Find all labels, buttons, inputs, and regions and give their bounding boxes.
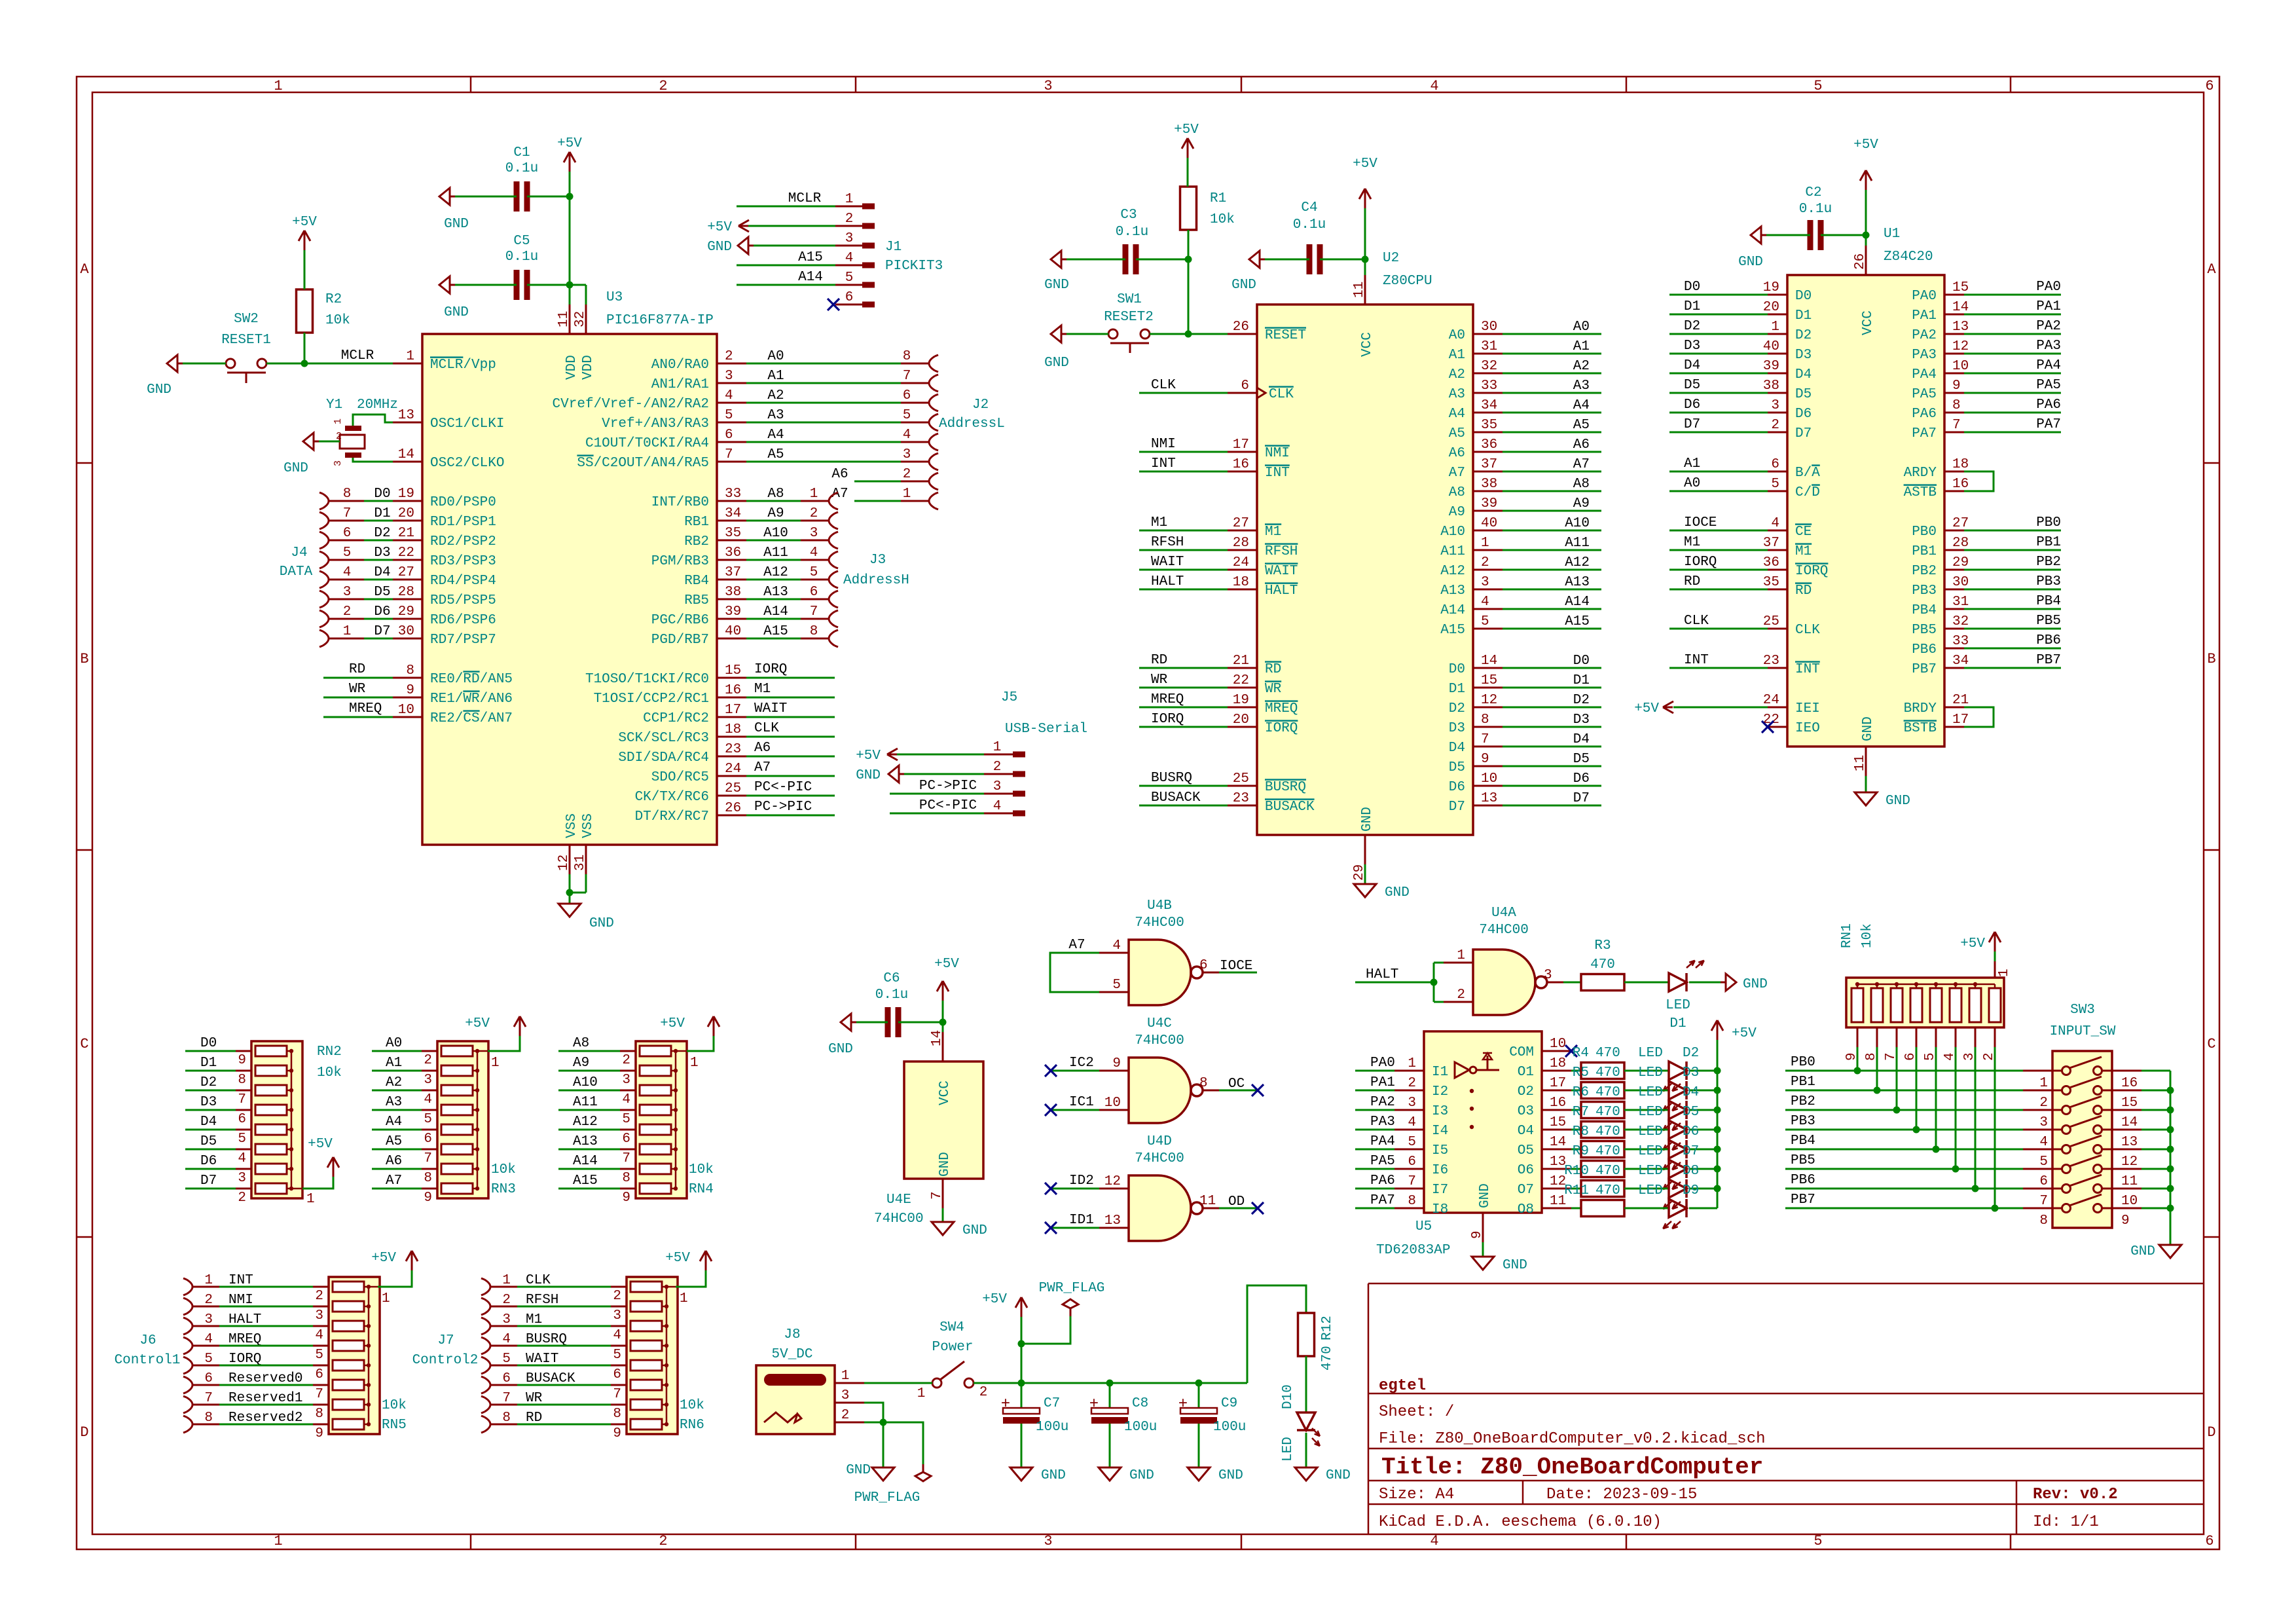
wire OD out bbox=[1219, 1208, 1257, 1209]
svg-text:7: 7 bbox=[424, 1151, 432, 1166]
svg-text:3: 3 bbox=[2039, 1115, 2048, 1130]
svg-text:13: 13 bbox=[398, 408, 414, 423]
svg-text:WR: WR bbox=[349, 682, 366, 697]
capacitor C7 100u bbox=[1003, 1408, 1040, 1414]
J7 pin 8 RD bbox=[484, 1417, 490, 1431]
wire SW3 pin9 to GND rail bbox=[2141, 1208, 2170, 1209]
SW3 element 1 bbox=[2062, 1067, 2071, 1075]
svg-text:VCC: VCC bbox=[938, 1080, 953, 1105]
J3 pin 2 net A9 bbox=[746, 520, 801, 522]
wire R9 to LED bbox=[1624, 1168, 1669, 1170]
svg-text:A5: A5 bbox=[386, 1134, 402, 1149]
U1 pin 12 PA3 bbox=[1944, 353, 1964, 355]
RN1 pin 8 bbox=[1876, 1027, 1878, 1047]
wire J6 IORQ bbox=[219, 1365, 314, 1367]
svg-text:A6: A6 bbox=[1449, 446, 1465, 461]
wire LED +5V rail bbox=[1717, 1040, 1719, 1208]
svg-text:PICKIT3: PICKIT3 bbox=[885, 259, 943, 274]
resistor R6 470 bbox=[1581, 1102, 1624, 1118]
svg-text:KiCad E.D.A. eeschema (6.0.10: KiCad E.D.A. eeschema (6.0.10) bbox=[1379, 1513, 1662, 1531]
wire U5 PA0 bbox=[1355, 1070, 1394, 1072]
svg-text:IOCE: IOCE bbox=[1220, 959, 1252, 974]
junction HALT bbox=[1430, 979, 1438, 986]
U2 pin 23 BUSACK bbox=[1228, 805, 1257, 807]
U3 pin 27 RD4/PSP4 bbox=[393, 579, 422, 581]
svg-text:RFSH: RFSH bbox=[1151, 535, 1184, 550]
RN5 element 2 bbox=[333, 1301, 364, 1312]
RN1 element 7 bbox=[1969, 988, 1981, 1022]
resistor network RN5 10k body bbox=[329, 1277, 380, 1434]
wire J4 D3 bbox=[364, 559, 393, 561]
svg-text:34: 34 bbox=[1481, 398, 1497, 413]
svg-text:4: 4 bbox=[993, 799, 1002, 814]
capacitor C8 100u bbox=[1091, 1408, 1128, 1414]
U2 pin 40 A10 bbox=[1473, 530, 1503, 532]
svg-text:I1: I1 bbox=[1432, 1065, 1448, 1080]
J4 pin 2 net D6 bbox=[323, 612, 329, 626]
svg-text:OD: OD bbox=[1228, 1194, 1245, 1209]
svg-text:9: 9 bbox=[1481, 752, 1489, 767]
resistor R5 470 bbox=[1581, 1082, 1624, 1099]
wire +5V to VCC bbox=[1364, 208, 1366, 275]
wire A15 RN4 bbox=[558, 1188, 620, 1190]
junction LED rail D8 bbox=[1714, 1166, 1721, 1173]
svg-text:I5: I5 bbox=[1432, 1143, 1448, 1158]
svg-text:A4: A4 bbox=[386, 1115, 402, 1130]
svg-text:M1: M1 bbox=[1151, 515, 1167, 530]
wire R10 to LED bbox=[1624, 1188, 1669, 1190]
svg-text:0.1u: 0.1u bbox=[1116, 225, 1148, 240]
svg-text:RN3: RN3 bbox=[491, 1182, 516, 1197]
svg-text:1: 1 bbox=[406, 349, 414, 364]
svg-text:7: 7 bbox=[238, 1092, 246, 1107]
wire GND to SW1 bbox=[1066, 333, 1108, 335]
svg-text:A12: A12 bbox=[573, 1115, 598, 1130]
U4E pin 14 VCC bbox=[942, 1032, 944, 1061]
svg-text:A4: A4 bbox=[767, 428, 784, 443]
svg-text:GND: GND bbox=[1044, 356, 1069, 371]
U2 pin 36 A6 bbox=[1473, 451, 1503, 453]
U1 pin 1 D2 bbox=[1768, 333, 1787, 335]
svg-text:16: 16 bbox=[725, 683, 741, 698]
wire J6 Reserved0 bbox=[219, 1384, 314, 1386]
svg-text:D6: D6 bbox=[1449, 780, 1465, 795]
RN1 internal bus bbox=[1857, 984, 1995, 986]
svg-text:17: 17 bbox=[1952, 712, 1969, 728]
svg-text:1: 1 bbox=[993, 740, 1002, 755]
svg-text:3: 3 bbox=[1481, 575, 1489, 590]
svg-text:AN1/RA1: AN1/RA1 bbox=[651, 377, 709, 392]
U4C pin 9 bbox=[1099, 1070, 1129, 1072]
power +5V arrow IEI bbox=[1663, 701, 1673, 707]
svg-text:24: 24 bbox=[725, 762, 741, 777]
svg-text:6: 6 bbox=[204, 1371, 213, 1386]
svg-text:A13: A13 bbox=[1440, 583, 1465, 599]
svg-text:470: 470 bbox=[1595, 1085, 1620, 1100]
svg-text:RD6/PSP6: RD6/PSP6 bbox=[430, 613, 496, 628]
svg-text:GND: GND bbox=[283, 461, 308, 476]
svg-text:11: 11 bbox=[1199, 1194, 1216, 1209]
junction PWR_FLAG top bbox=[1018, 1340, 1025, 1348]
svg-text:13: 13 bbox=[1104, 1213, 1121, 1228]
svg-text:IORQ: IORQ bbox=[1265, 721, 1298, 736]
svg-text:5: 5 bbox=[613, 1348, 621, 1363]
wire J6 Reserved2 bbox=[219, 1424, 314, 1426]
svg-text:OSC1/CLKI: OSC1/CLKI bbox=[430, 416, 504, 432]
svg-text:T1OSI/CCP2/RC1: T1OSI/CCP2/RC1 bbox=[594, 692, 709, 707]
svg-text:8: 8 bbox=[343, 487, 352, 502]
svg-text:A9: A9 bbox=[767, 506, 784, 521]
wire D5 RN2 bbox=[185, 1149, 236, 1151]
wire U2 A8 bbox=[1503, 490, 1601, 492]
RN5 pin 4 bbox=[313, 1325, 329, 1327]
junction PB1 RN1 bbox=[1874, 1087, 1881, 1094]
U3 pin 31 VSS bbox=[585, 845, 587, 874]
wire D4 RN2 bbox=[185, 1129, 236, 1131]
wire D0 RN2 bbox=[185, 1050, 236, 1052]
RN4 pin 3 bbox=[620, 1070, 636, 1072]
svg-text:7: 7 bbox=[1408, 1174, 1416, 1189]
svg-text:D1: D1 bbox=[1669, 1016, 1686, 1031]
U3 pin 21 RD2/PSP2 bbox=[393, 540, 422, 542]
RN4 pin 4 bbox=[620, 1090, 636, 1092]
svg-text:23: 23 bbox=[725, 742, 741, 757]
svg-text:D1: D1 bbox=[374, 506, 390, 521]
wire U2 A2 bbox=[1503, 373, 1601, 375]
svg-text:RN2: RN2 bbox=[317, 1044, 342, 1060]
J8 center pin symbol bbox=[764, 1412, 797, 1422]
svg-text:AddressL: AddressL bbox=[939, 416, 1005, 432]
U3 pin 19 RD0/PSP0 bbox=[393, 500, 422, 502]
resistor R9 470 bbox=[1581, 1161, 1624, 1177]
svg-text:A12: A12 bbox=[763, 565, 788, 580]
svg-text:D10: D10 bbox=[1281, 1384, 1296, 1409]
svg-text:7: 7 bbox=[2039, 1194, 2048, 1209]
wire U2 INT bbox=[1139, 471, 1228, 473]
wire A9 RN4 bbox=[558, 1070, 620, 1072]
RN1 pin 5 bbox=[1935, 1027, 1937, 1047]
wire RN1 to PB2 bbox=[1896, 1047, 1898, 1110]
wire SW4 to +5V rail bbox=[974, 1382, 1247, 1384]
svg-text:D5: D5 bbox=[374, 585, 390, 600]
svg-text:12: 12 bbox=[1104, 1174, 1121, 1189]
RN4 element 7 bbox=[640, 1164, 671, 1174]
power +5V RN3 bbox=[519, 1016, 521, 1036]
wire C2 right bbox=[1821, 234, 1866, 236]
RN4 pin 7 bbox=[620, 1149, 636, 1151]
svg-text:34: 34 bbox=[725, 506, 741, 521]
junction PB7 RN1 bbox=[1992, 1205, 1999, 1212]
wire D6 to +5V rail bbox=[1689, 1149, 1717, 1151]
wire J5 pin2 bbox=[904, 773, 984, 775]
svg-text:+: + bbox=[1001, 1395, 1010, 1413]
svg-text:AddressH: AddressH bbox=[843, 573, 909, 588]
LED D7 bbox=[1669, 1160, 1686, 1178]
U3 pin 3 AN1/RA1 bbox=[717, 382, 746, 384]
svg-text:0.1u: 0.1u bbox=[505, 161, 538, 176]
svg-text:INPUT_SW: INPUT_SW bbox=[2050, 1024, 2116, 1039]
RN4 element 5 bbox=[640, 1124, 671, 1135]
wire A3 RN3 bbox=[372, 1109, 422, 1111]
svg-text:2: 2 bbox=[903, 467, 911, 482]
wire R4 to LED bbox=[1624, 1070, 1669, 1072]
svg-text:5: 5 bbox=[1813, 1533, 1822, 1549]
svg-text:10: 10 bbox=[398, 703, 414, 718]
svg-text:A7: A7 bbox=[1068, 938, 1085, 953]
RN1 element 5 bbox=[1930, 988, 1942, 1022]
svg-text:GND: GND bbox=[1738, 255, 1763, 270]
power flag PWR_FLAG top bbox=[1070, 1308, 1072, 1316]
wire PB5 bus bbox=[1785, 1168, 2023, 1170]
svg-text:A3: A3 bbox=[386, 1095, 402, 1110]
wire RN2 pin1 to +5V bbox=[302, 1177, 333, 1189]
svg-text:O5: O5 bbox=[1518, 1143, 1534, 1158]
wire C3 right bbox=[1136, 259, 1188, 261]
svg-text:PB1: PB1 bbox=[1791, 1075, 1815, 1090]
svg-text:4: 4 bbox=[1408, 1115, 1416, 1130]
U3 pin 24 SDO/RC5 bbox=[717, 775, 746, 777]
wire R3 to LED D1 bbox=[1624, 982, 1669, 984]
svg-text:A12: A12 bbox=[1440, 564, 1465, 579]
svg-text:R11: R11 bbox=[1564, 1183, 1589, 1198]
svg-text:A8: A8 bbox=[767, 487, 784, 502]
svg-text:COM: COM bbox=[1509, 1045, 1534, 1060]
wire U2 BUSRQ bbox=[1139, 785, 1228, 787]
U5 pin 14 O5 bbox=[1542, 1149, 1571, 1151]
svg-text:3: 3 bbox=[1408, 1096, 1416, 1111]
RN2 element 6 bbox=[255, 1144, 287, 1154]
SW3 element 2 bbox=[2062, 1086, 2071, 1095]
RN6 element 2 bbox=[630, 1301, 662, 1312]
svg-text:8: 8 bbox=[2039, 1213, 2048, 1228]
svg-text:A0: A0 bbox=[1449, 328, 1465, 343]
wire SW3 pin14 to GND rail bbox=[2141, 1109, 2170, 1111]
svg-text:C6: C6 bbox=[883, 971, 900, 986]
wire R12 to D10 bbox=[1305, 1356, 1307, 1412]
svg-text:33: 33 bbox=[1952, 634, 1969, 649]
svg-text:11: 11 bbox=[556, 311, 572, 327]
wire PB2 bus bbox=[1785, 1109, 2023, 1111]
wire SW2 to U3 MCLR bbox=[266, 363, 393, 365]
wire J1 pin2 bbox=[748, 225, 835, 227]
svg-text:29: 29 bbox=[398, 604, 414, 619]
svg-text:3: 3 bbox=[725, 369, 733, 384]
svg-text:GND: GND bbox=[1326, 1468, 1351, 1483]
svg-text:I2: I2 bbox=[1432, 1084, 1448, 1099]
RN2 pin 7 bbox=[236, 1090, 251, 1092]
J6 pin 1 INT bbox=[187, 1280, 192, 1294]
svg-text:C5: C5 bbox=[513, 234, 530, 249]
wire U1 PA7 bbox=[1964, 432, 2061, 434]
svg-text:15: 15 bbox=[1952, 280, 1969, 295]
svg-text:RESET1: RESET1 bbox=[221, 333, 271, 348]
wire D9 to +5V rail bbox=[1689, 1208, 1717, 1209]
wire C3 left bbox=[1066, 259, 1125, 261]
svg-text:39: 39 bbox=[1763, 359, 1779, 374]
U1 pin 36 IORQ bbox=[1768, 569, 1787, 571]
svg-text:A10: A10 bbox=[763, 526, 788, 541]
svg-text:2: 2 bbox=[343, 604, 352, 619]
svg-text:RN5: RN5 bbox=[382, 1418, 407, 1433]
svg-text:U4C: U4C bbox=[1147, 1016, 1172, 1031]
wire J5 PC->PIC bbox=[890, 793, 984, 795]
wire J7 RFSH bbox=[517, 1306, 612, 1308]
wire PB3 bus bbox=[1785, 1129, 2023, 1131]
svg-text:A6: A6 bbox=[754, 741, 771, 756]
svg-text:3: 3 bbox=[1044, 1533, 1052, 1549]
svg-text:20: 20 bbox=[1763, 300, 1779, 315]
U4D output bubble bbox=[1191, 1202, 1203, 1214]
svg-text:+5V: +5V bbox=[292, 215, 317, 230]
svg-text:A8: A8 bbox=[1573, 477, 1590, 492]
svg-text:GND: GND bbox=[1129, 1468, 1154, 1483]
svg-text:+5V: +5V bbox=[660, 1016, 685, 1031]
svg-text:17: 17 bbox=[1233, 437, 1249, 452]
svg-text:9: 9 bbox=[315, 1426, 323, 1441]
svg-text:PB4: PB4 bbox=[2036, 594, 2061, 609]
svg-text:27: 27 bbox=[1952, 516, 1969, 531]
wire U1 PB6 bbox=[1964, 648, 2061, 650]
svg-text:3: 3 bbox=[841, 1388, 850, 1403]
U2 pin 19 MREQ bbox=[1228, 707, 1257, 709]
RN3 pin 9 bbox=[422, 1188, 437, 1190]
wire U1 D5 bbox=[1669, 392, 1768, 394]
svg-text:PA2: PA2 bbox=[2036, 319, 2061, 334]
junction RESET bbox=[1185, 331, 1192, 338]
RN2 pin 4 bbox=[236, 1149, 251, 1151]
wire U3 A6 bbox=[746, 756, 835, 758]
svg-text:8: 8 bbox=[613, 1407, 621, 1422]
svg-text:+5V: +5V bbox=[665, 1251, 690, 1266]
svg-text:10k: 10k bbox=[1860, 923, 1875, 948]
svg-text:D3: D3 bbox=[200, 1095, 217, 1110]
svg-text:10k: 10k bbox=[680, 1398, 704, 1413]
RN2 pin 8 bbox=[236, 1070, 251, 1072]
J2 pin 7 net A1 bbox=[746, 382, 901, 384]
svg-text:Power: Power bbox=[932, 1340, 973, 1355]
wire SW3 pin12 to GND rail bbox=[2141, 1149, 2170, 1151]
svg-text:26: 26 bbox=[725, 801, 741, 816]
svg-text:2: 2 bbox=[336, 431, 342, 442]
U4B pin 6 bbox=[1203, 972, 1219, 974]
no-connect OD bbox=[1252, 1202, 1264, 1214]
svg-text:0.1u: 0.1u bbox=[1293, 217, 1326, 232]
svg-text:3: 3 bbox=[810, 526, 818, 541]
svg-text:A0: A0 bbox=[1573, 320, 1590, 335]
wire R1 to RESET net bbox=[1188, 230, 1190, 334]
wire C1 right bbox=[527, 196, 570, 198]
RN3 element 3 bbox=[441, 1085, 473, 1096]
wire IC1 bbox=[1051, 1109, 1099, 1111]
svg-text:O4: O4 bbox=[1518, 1124, 1534, 1139]
wire U2 A15 bbox=[1503, 628, 1601, 630]
svg-text:GND: GND bbox=[1231, 278, 1256, 293]
J8 pin 1 bbox=[835, 1382, 864, 1384]
U2 pin 31 A1 bbox=[1473, 353, 1503, 355]
svg-text:9: 9 bbox=[1470, 1230, 1485, 1239]
NAND gate U4C 74HC00 body bbox=[1129, 1058, 1191, 1123]
svg-text:11: 11 bbox=[1853, 755, 1868, 771]
svg-text:RB2: RB2 bbox=[684, 534, 709, 549]
svg-text:35: 35 bbox=[1481, 418, 1497, 433]
power +5V arrow J1 pin2 bbox=[738, 220, 749, 226]
svg-text:LED: LED bbox=[1638, 1183, 1663, 1198]
SW3 pin 3 bbox=[2023, 1109, 2062, 1111]
svg-text:38: 38 bbox=[1763, 378, 1779, 394]
wire PB0 bus bbox=[1785, 1070, 2023, 1072]
ground Y1 GND arrow bbox=[303, 433, 314, 450]
J3 pin 6 net A13 bbox=[746, 599, 801, 600]
svg-text:A: A bbox=[2207, 261, 2216, 278]
wire U5 O5 to resistor bbox=[1571, 1149, 1581, 1151]
wire U1 IORQ bbox=[1669, 569, 1768, 571]
svg-text:RB4: RB4 bbox=[684, 574, 709, 589]
svg-text:O6: O6 bbox=[1518, 1163, 1534, 1178]
switch SW3 INPUT_SW body bbox=[2052, 1051, 2112, 1228]
RN5 internal bus bbox=[368, 1287, 370, 1424]
title block bbox=[1368, 1283, 1370, 1534]
ground U3 GND symbol bbox=[558, 904, 581, 917]
svg-text:A11: A11 bbox=[1440, 544, 1465, 559]
svg-text:VCC: VCC bbox=[1360, 332, 1375, 357]
wire U2 A9 bbox=[1503, 510, 1601, 512]
wire J6 Reserved1 bbox=[219, 1404, 314, 1406]
U2 pin 12 D2 bbox=[1473, 707, 1503, 709]
wire U4A out to R3 bbox=[1563, 982, 1581, 984]
svg-text:O8: O8 bbox=[1518, 1202, 1534, 1217]
svg-text:6: 6 bbox=[238, 1112, 246, 1127]
U1 pin 34 PB7 bbox=[1944, 667, 1964, 669]
wire D7 RN2 bbox=[185, 1188, 236, 1190]
IC U4E 74HC00 power body bbox=[904, 1061, 983, 1179]
svg-text:100u: 100u bbox=[1036, 1420, 1068, 1435]
wire to PWR_FLAG top bbox=[1021, 1316, 1070, 1344]
wire U1 D7 bbox=[1669, 432, 1768, 434]
svg-text:SDO/RC5: SDO/RC5 bbox=[651, 770, 709, 785]
junction LED rail D5 bbox=[1714, 1107, 1721, 1114]
RN6 pin 2 bbox=[611, 1286, 627, 1288]
wire IOCE out bbox=[1219, 972, 1257, 974]
ground GND arrow J5 pin2 bbox=[888, 766, 899, 783]
wire U2 D2 bbox=[1503, 707, 1601, 709]
wire U2 RFSH bbox=[1139, 549, 1228, 551]
RN5 element 5 bbox=[333, 1360, 364, 1371]
wire U3 VSS to GND bbox=[569, 874, 571, 904]
LED D5 bbox=[1669, 1120, 1686, 1139]
wire RN1 to PB6 bbox=[1975, 1047, 1977, 1189]
svg-text:10k: 10k bbox=[317, 1065, 342, 1080]
svg-text:4: 4 bbox=[622, 1092, 630, 1107]
svg-text:VCC: VCC bbox=[1861, 310, 1876, 335]
svg-text:PB2: PB2 bbox=[1791, 1094, 1815, 1109]
RN6 element 3 bbox=[630, 1321, 662, 1331]
wire R11 to LED bbox=[1624, 1208, 1669, 1209]
svg-text:30: 30 bbox=[1481, 320, 1497, 335]
svg-text:PB3: PB3 bbox=[1912, 583, 1937, 599]
wire A2 RN3 bbox=[372, 1090, 422, 1092]
svg-text:GND: GND bbox=[707, 240, 732, 255]
svg-text:PA6: PA6 bbox=[1912, 407, 1937, 422]
svg-text:J1: J1 bbox=[885, 240, 902, 255]
wire U2 MREQ bbox=[1139, 707, 1228, 709]
svg-text:PB7: PB7 bbox=[1912, 662, 1937, 677]
svg-text:1: 1 bbox=[680, 1291, 688, 1306]
svg-text:1: 1 bbox=[845, 192, 854, 207]
svg-text:R2: R2 bbox=[325, 292, 342, 307]
no-connect U1 IEO bbox=[1762, 721, 1774, 733]
svg-text:PA4: PA4 bbox=[1370, 1134, 1395, 1149]
wire U1 D6 bbox=[1669, 412, 1768, 414]
